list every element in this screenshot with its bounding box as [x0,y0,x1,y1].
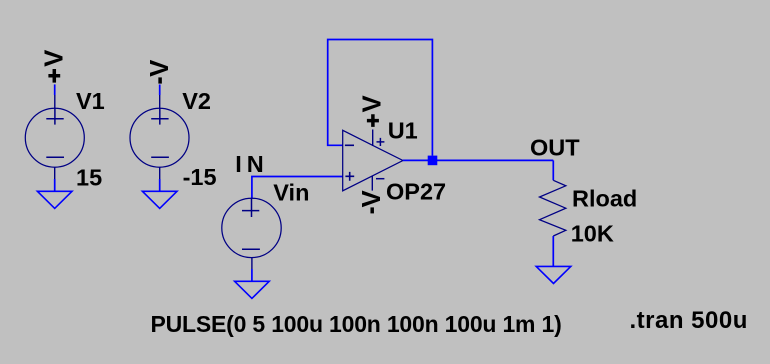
wire V2 top [159,85,161,96]
net label V- below op-amp (rotated V glyph) [358,190,386,213]
wire V1 bottom [54,179,56,191]
svg-text:10K: 10K [571,220,614,246]
svg-text:Rload: Rload [572,185,637,211]
wire V2 bottom [159,179,161,191]
voltage source V2 [130,95,189,179]
op-amp inverting input mark - [345,144,354,146]
op-amp U1 triangle [343,130,403,191]
net label V+ on V1 (rotated V glyph) [40,50,68,83]
op-amp V+ power mark + [377,138,385,146]
wire V1 top [54,84,56,95]
op-amp V+ power pin [372,130,374,147]
svg-text:Vin: Vin [273,179,309,205]
net label V+ above op-amp (rotated V glyph) [359,95,387,127]
svg-text:.tran 500u: .tran 500u [630,307,748,334]
junction node at feedback/output [428,156,438,166]
svg-text:OP27: OP27 [386,179,446,205]
net label V+ on V2 (rotated V glyph) [146,60,174,84]
op-amp V- power pin [371,176,373,191]
svg-text:OUT: OUT [530,135,580,161]
voltage source Vin [222,198,281,269]
wire Rload bottom [552,236,554,266]
svg-text:IN: IN [235,151,269,177]
wire OUT down to Rload [552,160,554,180]
svg-text:15: 15 [76,164,102,190]
svg-text:V: V [146,60,174,77]
op-amp V- power mark - [376,178,384,180]
svg-text:-15: -15 [183,164,217,190]
wire IN: Vin top to op-amp noninverting input [252,177,343,199]
svg-text:V: V [40,50,68,67]
svg-text:PULSE(0 5 100u 100n 100n 100u: PULSE(0 5 100u 100n 100n 100u 1m 1) [151,311,562,337]
voltage source V1 [25,95,84,179]
svg-text:U1: U1 [388,118,418,144]
wire op-amp output to OUT [403,159,553,161]
svg-text:V1: V1 [76,88,105,114]
op-amp noninverting input mark + [345,172,354,181]
ground under Rload [536,266,571,283]
svg-text:V: V [359,95,387,112]
svg-text:V2: V2 [182,88,211,114]
wire Vin bottom [251,269,253,281]
svg-text:V: V [358,190,386,207]
wire feedback: output node up over to inverting input [328,40,433,156]
resistor Rload [540,180,566,236]
ground under Vin [235,281,270,298]
ground under V1 [37,191,72,208]
ground under V2 [142,191,177,208]
